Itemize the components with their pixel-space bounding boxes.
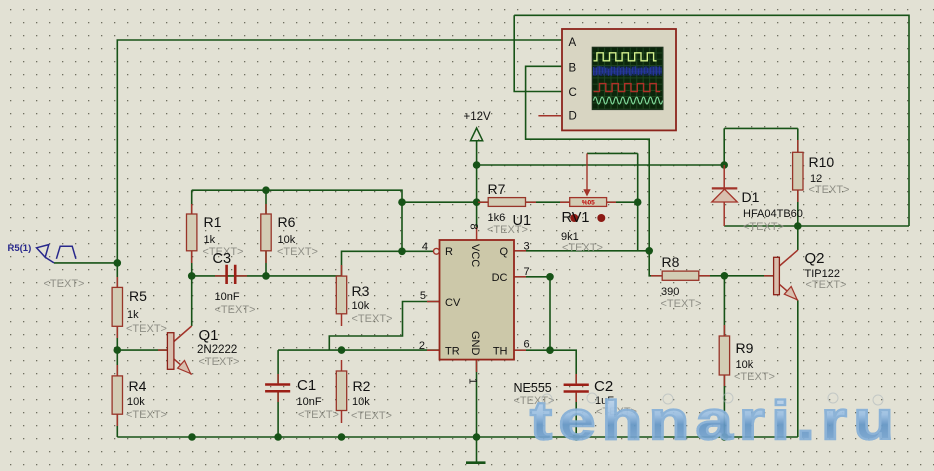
wire: +12V horizontal rail to D1 [477,164,725,166]
wire: CV pin5 net jog [329,302,439,351]
wire: R6 branch vertical [265,190,267,276]
label R7 [487,181,528,236]
wire: RV1 right terminal loop vertical [587,153,638,250]
wire: R10 vertical [797,128,799,226]
scope channel D stub [538,115,562,117]
junction: +12V rail split [473,161,481,169]
scope trace B blue noisy wave [594,66,663,76]
junction: Q1 emitter on rail [188,433,196,441]
transistor Q1 2N2222 [158,326,192,375]
junction: R6 top on rail [262,186,270,194]
wire: D1 top rail [724,128,798,165]
potentiometer RV1 9k1 [560,153,616,222]
wire: TH to C2 [550,350,576,383]
wire: Q2 collector vertical [797,226,799,250]
label Q1 [197,327,239,368]
oscilloscope instrument [538,29,676,130]
label NE555 [514,381,555,407]
label C3 [213,251,256,316]
transistor Q2 TIP122 [764,250,798,300]
label R1 [203,214,244,258]
junction: output net node [645,247,653,255]
label Q2 [805,250,847,291]
wire: DC-TH vertical link [549,277,551,350]
wire: scope channel B net [526,66,650,251]
junction: R1/C3/Q1 collector [188,272,196,280]
label R4 [126,378,167,421]
wire: bottom ground rail [117,436,798,438]
junction: R2 bottom on rail [338,433,346,441]
capacitor C2 1uF [564,374,589,402]
scope trace A yellow square wave [594,53,657,61]
junction: R7 rail / reset vertical [398,198,406,206]
resistor R8 390 [651,271,710,280]
junction: R6 bottom on C3 node [262,272,270,280]
wire: C3 node horizontal [192,275,342,277]
wire: output to R8 [649,251,662,276]
ground symbol [466,461,486,464]
pin 4 inversion bubble [434,248,440,254]
label C1 [297,377,339,421]
wire: Q1 base [117,349,167,351]
wire: DC pin7 net [514,276,550,278]
wire: R9 vertical [723,276,725,437]
wire: Q1 collector vertical through R1 [191,190,193,326]
junction: R10 bottom node [794,222,802,230]
resistor R4 10k [112,365,122,426]
scope screen [592,47,663,109]
label R3 [352,283,393,325]
resistor R5 1k [112,277,122,338]
wire: TH pin6 net [514,349,550,351]
label R9 [734,340,775,383]
wire: R8 to Q2 base [699,275,774,277]
junction: R8/R9/Q2 base node [721,272,729,280]
junction: R3/R2/TR/C1 node [338,346,346,354]
wire: scope channel C net [514,15,562,91]
IC U1 NE555 body [427,227,526,372]
label C2 [594,378,637,418]
label D1 [742,189,803,233]
wire: C2 bottom to rail [575,393,577,437]
capacitor C3 10nF [215,265,247,284]
label R8 [661,254,702,310]
junction: RV1 right terminal node [634,198,642,206]
junction: +12V / R7 rail [473,198,481,206]
wire: scope channel A net from R5 node [117,40,562,263]
capacitor C1 10nF [265,374,290,402]
resistor R2 10k [336,360,346,423]
wire: top rail to right edge [514,15,909,226]
wire: reset pin feed [342,251,434,276]
wire: collector rail horizontal [724,225,909,227]
resistor R9 10k [719,325,729,386]
watermark tehnari.ru [530,388,934,451]
wire: 555 pin1 to ground [476,360,478,462]
diode D1 HFA04TB60 [712,165,738,226]
label RV1 [561,210,603,254]
label R6 [277,214,318,258]
wire: 555 output pin3 net [514,250,649,252]
wire: Q2 emitter vertical [797,300,799,437]
wire: R7 rail [402,201,638,203]
label R5 [126,288,167,335]
wire: top-left rail to reset feed vertical [192,190,402,251]
wire: left vertical rail through R5 R4 [116,263,118,437]
resistor R10 12 [793,140,803,202]
label R2 [351,378,392,422]
junction: reset pin node [398,248,406,256]
label R5(1) net name [8,243,85,290]
scope channel labels [569,37,577,123]
junction: R5/R4/Q1 base [114,346,122,354]
junction: source/R5/scopeA node [114,259,122,267]
junction: C2 bottom on rail [572,433,580,441]
junction: R9 bottom on rail [721,433,729,441]
wire: source output to R5 top node [54,262,117,264]
wire: +12V vertical rail [476,141,478,227]
scope trace D green sine wave [594,97,663,104]
resistor R1 1k [187,204,197,263]
resistor R7 1k6 [478,198,536,207]
resistor R6 10k [261,204,271,263]
junction: TH node [546,346,554,354]
resistor R3 10k [336,265,346,326]
junction: D1 on +12V rail [720,161,728,169]
wire: TR C1 node horizontal [278,349,439,351]
junction: pin1 on rail [473,433,481,441]
power symbol +12V [471,128,483,141]
junction: DC node [546,273,554,281]
scope trace C red square wave [594,84,661,92]
junction: C1 bottom on rail [274,433,282,441]
label R10 [809,154,850,196]
generator source R5(1) [37,245,76,263]
wire: C1 vertical [277,350,279,437]
